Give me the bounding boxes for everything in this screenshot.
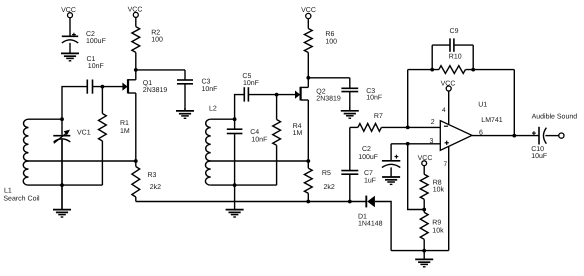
svg-text:4: 4 (442, 107, 446, 114)
node C7 bottom / D1 junction (348, 200, 352, 204)
svg-text:1uF: 1uF (364, 178, 376, 185)
transistor Q2 2N3819 (295, 78, 308, 161)
node R9 / ground rail junction (422, 249, 426, 253)
label R5 value (322, 170, 335, 191)
node Q1 drain junction (134, 68, 138, 72)
node Q1 source / L1 tap / R3 junction (134, 159, 138, 163)
svg-text:100: 100 (151, 37, 163, 44)
svg-text:10nF: 10nF (202, 86, 218, 93)
svg-text:R4: R4 (293, 123, 302, 130)
svg-text:10k: 10k (433, 186, 445, 194)
svg-text:10nF: 10nF (88, 63, 104, 70)
node R5 bottom / rail junction (306, 200, 310, 204)
svg-text:Search Coil: Search Coil (3, 195, 40, 203)
wire L2 bottom to R4 bottom (211, 184, 277, 186)
ground under C2 (61, 43, 79, 61)
node Q2 source / L2 tap / R5 junction (306, 159, 310, 163)
node C1/R1/gate junction (101, 85, 105, 89)
label C5 value (242, 73, 259, 87)
capacitor C2 (100uF decoupling, top-left) (62, 33, 78, 43)
svg-text:3: 3 (430, 138, 434, 145)
label R4 value (293, 123, 303, 137)
power VCC symbol 2 (above R2) (128, 7, 143, 18)
svg-text:2N3819: 2N3819 (316, 96, 341, 103)
resistor R9 10k (420, 210, 428, 251)
svg-text:Q2: Q2 (316, 88, 325, 95)
node R7 / pin2 / feedback junction (406, 126, 410, 130)
resistor R5 2k2 (304, 161, 312, 202)
svg-text:Audible Sound: Audible Sound (532, 112, 578, 120)
node feedback right (471, 68, 475, 72)
node Q2 drain junction (306, 76, 310, 80)
transistor Q1 2N3819 (122, 70, 135, 161)
ground under VC1 / tank (53, 140, 71, 217)
svg-text:R7: R7 (374, 113, 383, 120)
svg-text:R6: R6 (325, 31, 334, 38)
svg-text:C7: C7 (364, 170, 373, 177)
svg-text:C10: C10 (531, 146, 544, 153)
capacitor C3 (10nF, osc1) (177, 70, 193, 111)
wire L2 top to C4/C5 node (211, 118, 235, 120)
node L2 top junction (233, 117, 237, 121)
wire L2 tap to Q2 source / R5 (211, 160, 309, 162)
inductor L2 (205, 119, 210, 185)
node C5 / R4 / Q2 gate junction (275, 93, 279, 97)
svg-text:L1: L1 (4, 188, 12, 195)
label Q1 (143, 80, 168, 94)
wire C1 left lead down to tank top (62, 87, 87, 119)
svg-text:Q1: Q1 (143, 80, 152, 87)
label R2 value (151, 29, 163, 43)
svg-text:7: 7 (443, 161, 447, 168)
wire feedback left vertical (407, 70, 409, 128)
resistor R3 2k2 (132, 161, 140, 202)
svg-text:2N3819: 2N3819 (143, 87, 168, 94)
capacitor C1 (10nF coupling) (87, 80, 92, 94)
svg-text:2k2: 2k2 (150, 183, 161, 191)
ground under C3 (osc2) (341, 107, 359, 118)
resistor R4 1M (273, 95, 281, 186)
svg-text:2k2: 2k2 (324, 183, 335, 191)
label C3 value (osc2) (366, 88, 382, 101)
svg-text:100: 100 (325, 39, 337, 46)
svg-text:R2: R2 (151, 29, 160, 36)
svg-text:R8: R8 (433, 179, 442, 186)
svg-text:LM741: LM741 (481, 117, 503, 124)
resistor R6 100 (304, 19, 312, 78)
wire drain rail 2 to C3b (308, 77, 350, 79)
inductor L1 search coil (23, 119, 28, 185)
wire C1 to Q1 gate (93, 86, 123, 88)
label Q2 (316, 88, 341, 102)
ground under pin3 bypass cap (382, 167, 400, 184)
wire L1 bottom to R1 bottom (29, 184, 103, 186)
variable capacitor VC1 (53, 119, 70, 209)
svg-text:C3: C3 (202, 79, 211, 86)
label C10 value (531, 146, 547, 160)
wire feedback top to R10 (408, 69, 439, 71)
svg-text:R3: R3 (148, 172, 157, 179)
power VCC symbol 5 (above R8) (418, 155, 433, 166)
svg-text:C4: C4 (250, 129, 259, 136)
svg-text:VC1: VC1 (77, 130, 91, 137)
wire op-amp pin 7 to ground rail (448, 146, 450, 250)
wire op-amp output (472, 135, 539, 137)
label C3 value (osc1) (202, 79, 218, 93)
capacitor C9 (432, 38, 473, 69)
resistor R2 100 (132, 17, 140, 70)
node VC1 top junction (60, 117, 64, 121)
capacitor C7 (1uF coupling) (341, 127, 358, 201)
svg-text:1M: 1M (120, 128, 130, 135)
capacitor C5 (10nF feedback) (235, 87, 296, 119)
wire L1 tap to Q1 source / R3 (29, 160, 136, 162)
ground symbol bottom (415, 251, 433, 267)
node pin3 junction (406, 142, 410, 146)
node R8/R9 divider junction (422, 208, 426, 212)
svg-text:R10: R10 (449, 53, 462, 60)
ground under L2/C4 (226, 185, 244, 217)
svg-text:U1: U1 (478, 101, 487, 108)
capacitor C4 (10nF tank) (227, 119, 243, 185)
svg-text:100uF: 100uF (358, 154, 378, 161)
wire L1 top to VC1 (29, 118, 63, 120)
label R9 value (432, 219, 444, 234)
svg-text:100uF: 100uF (86, 38, 106, 45)
wire VCC4 to op-amp pin 4 (448, 91, 450, 125)
ground under C3 (osc1) (176, 108, 194, 118)
wire VCC1 to C2 (69, 18, 71, 36)
label R8 value (433, 179, 445, 193)
svg-text:2: 2 (431, 119, 435, 126)
svg-text:R1: R1 (120, 120, 129, 127)
power VCC symbol 4 (op-amp supply) (441, 81, 456, 92)
wire source rail (R3 to D1) (136, 201, 366, 203)
node L2 bottom / C4 ground junction (233, 183, 237, 187)
node output / feedback junction (512, 134, 516, 138)
power VCC symbol 3 (above R6) (301, 7, 316, 19)
svg-text:L2: L2 (209, 105, 217, 112)
label D1 value (358, 213, 383, 227)
svg-text:10k: 10k (432, 226, 444, 234)
wire pin3 down to divider (408, 144, 425, 210)
label C1 value (87, 56, 104, 70)
output terminal (559, 133, 564, 138)
svg-text:1M: 1M (293, 130, 303, 137)
label C2 value (second 100uF label) (358, 146, 378, 161)
label C7 value (364, 170, 376, 185)
resistor R7 (mixer input) (350, 124, 441, 132)
svg-text:R5: R5 (322, 170, 331, 177)
diode D1 1N4148 (366, 196, 375, 208)
wire ground rail (391, 250, 449, 252)
svg-text:10nF: 10nF (243, 80, 259, 87)
svg-text:R9: R9 (432, 219, 441, 226)
wire pin3 net (391, 143, 440, 145)
resistor R1 1M (99, 87, 107, 186)
op-amp U1 LM741 (440, 121, 472, 151)
svg-text:10uF: 10uF (531, 153, 547, 160)
power VCC symbol 1 (above C2 decoupling cap) (61, 7, 76, 18)
label R6 value (325, 31, 337, 45)
wire feedback right vertical (513, 70, 515, 136)
svg-text:10nF: 10nF (251, 136, 267, 143)
capacitor C3 (10nF, osc2) (341, 78, 358, 111)
svg-text:C1: C1 (87, 56, 96, 63)
node L1 bottom / ground line junction (60, 183, 64, 187)
label R1 value (120, 120, 130, 135)
label R3 value (148, 172, 162, 191)
wire D1 cathode to ground rail (375, 202, 391, 251)
svg-text:10nF: 10nF (366, 94, 382, 101)
capacitor C2 (100uF bypass at pin3) (382, 144, 400, 168)
svg-text:1N4148: 1N4148 (358, 220, 383, 227)
svg-text:C2: C2 (362, 146, 371, 153)
svg-text:C9: C9 (450, 28, 459, 35)
resistor R10 (439, 66, 466, 74)
label C2 value (86, 31, 106, 45)
resistor R8 10k (420, 166, 428, 210)
wire drain rail to C3 (136, 69, 185, 71)
capacitor C10 (10uF output) (532, 127, 559, 145)
label C4 value (250, 129, 267, 143)
label L1 (3, 188, 40, 203)
node feedback left (430, 68, 434, 72)
wire R10 right to feedback down (465, 69, 514, 71)
